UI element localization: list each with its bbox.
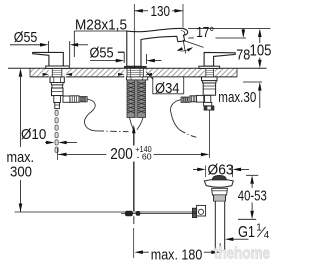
svg-text:17°: 17° — [196, 25, 214, 41]
svg-text:4: 4 — [264, 230, 270, 241]
svg-text:Ø55: Ø55 — [90, 46, 114, 62]
svg-text:Ø10: Ø10 — [21, 127, 46, 143]
svg-text:40-53: 40-53 — [238, 189, 267, 205]
svg-text:Ø63: Ø63 — [208, 162, 234, 178]
svg-text:300: 300 — [10, 165, 32, 181]
svg-text:Ø55: Ø55 — [14, 30, 38, 46]
svg-text:105: 105 — [250, 43, 272, 60]
svg-text:G1: G1 — [238, 224, 255, 241]
svg-text:1: 1 — [256, 223, 261, 234]
svg-text:thehome: thehome — [214, 244, 270, 262]
svg-text:200: 200 — [110, 146, 133, 163]
svg-text:max. 180: max. 180 — [151, 247, 203, 263]
svg-text:max.30: max.30 — [218, 90, 256, 106]
svg-text:78: 78 — [236, 47, 250, 63]
svg-text:130: 130 — [151, 4, 171, 20]
svg-text:- 60: - 60 — [137, 151, 152, 161]
svg-text:Ø34: Ø34 — [155, 81, 180, 97]
